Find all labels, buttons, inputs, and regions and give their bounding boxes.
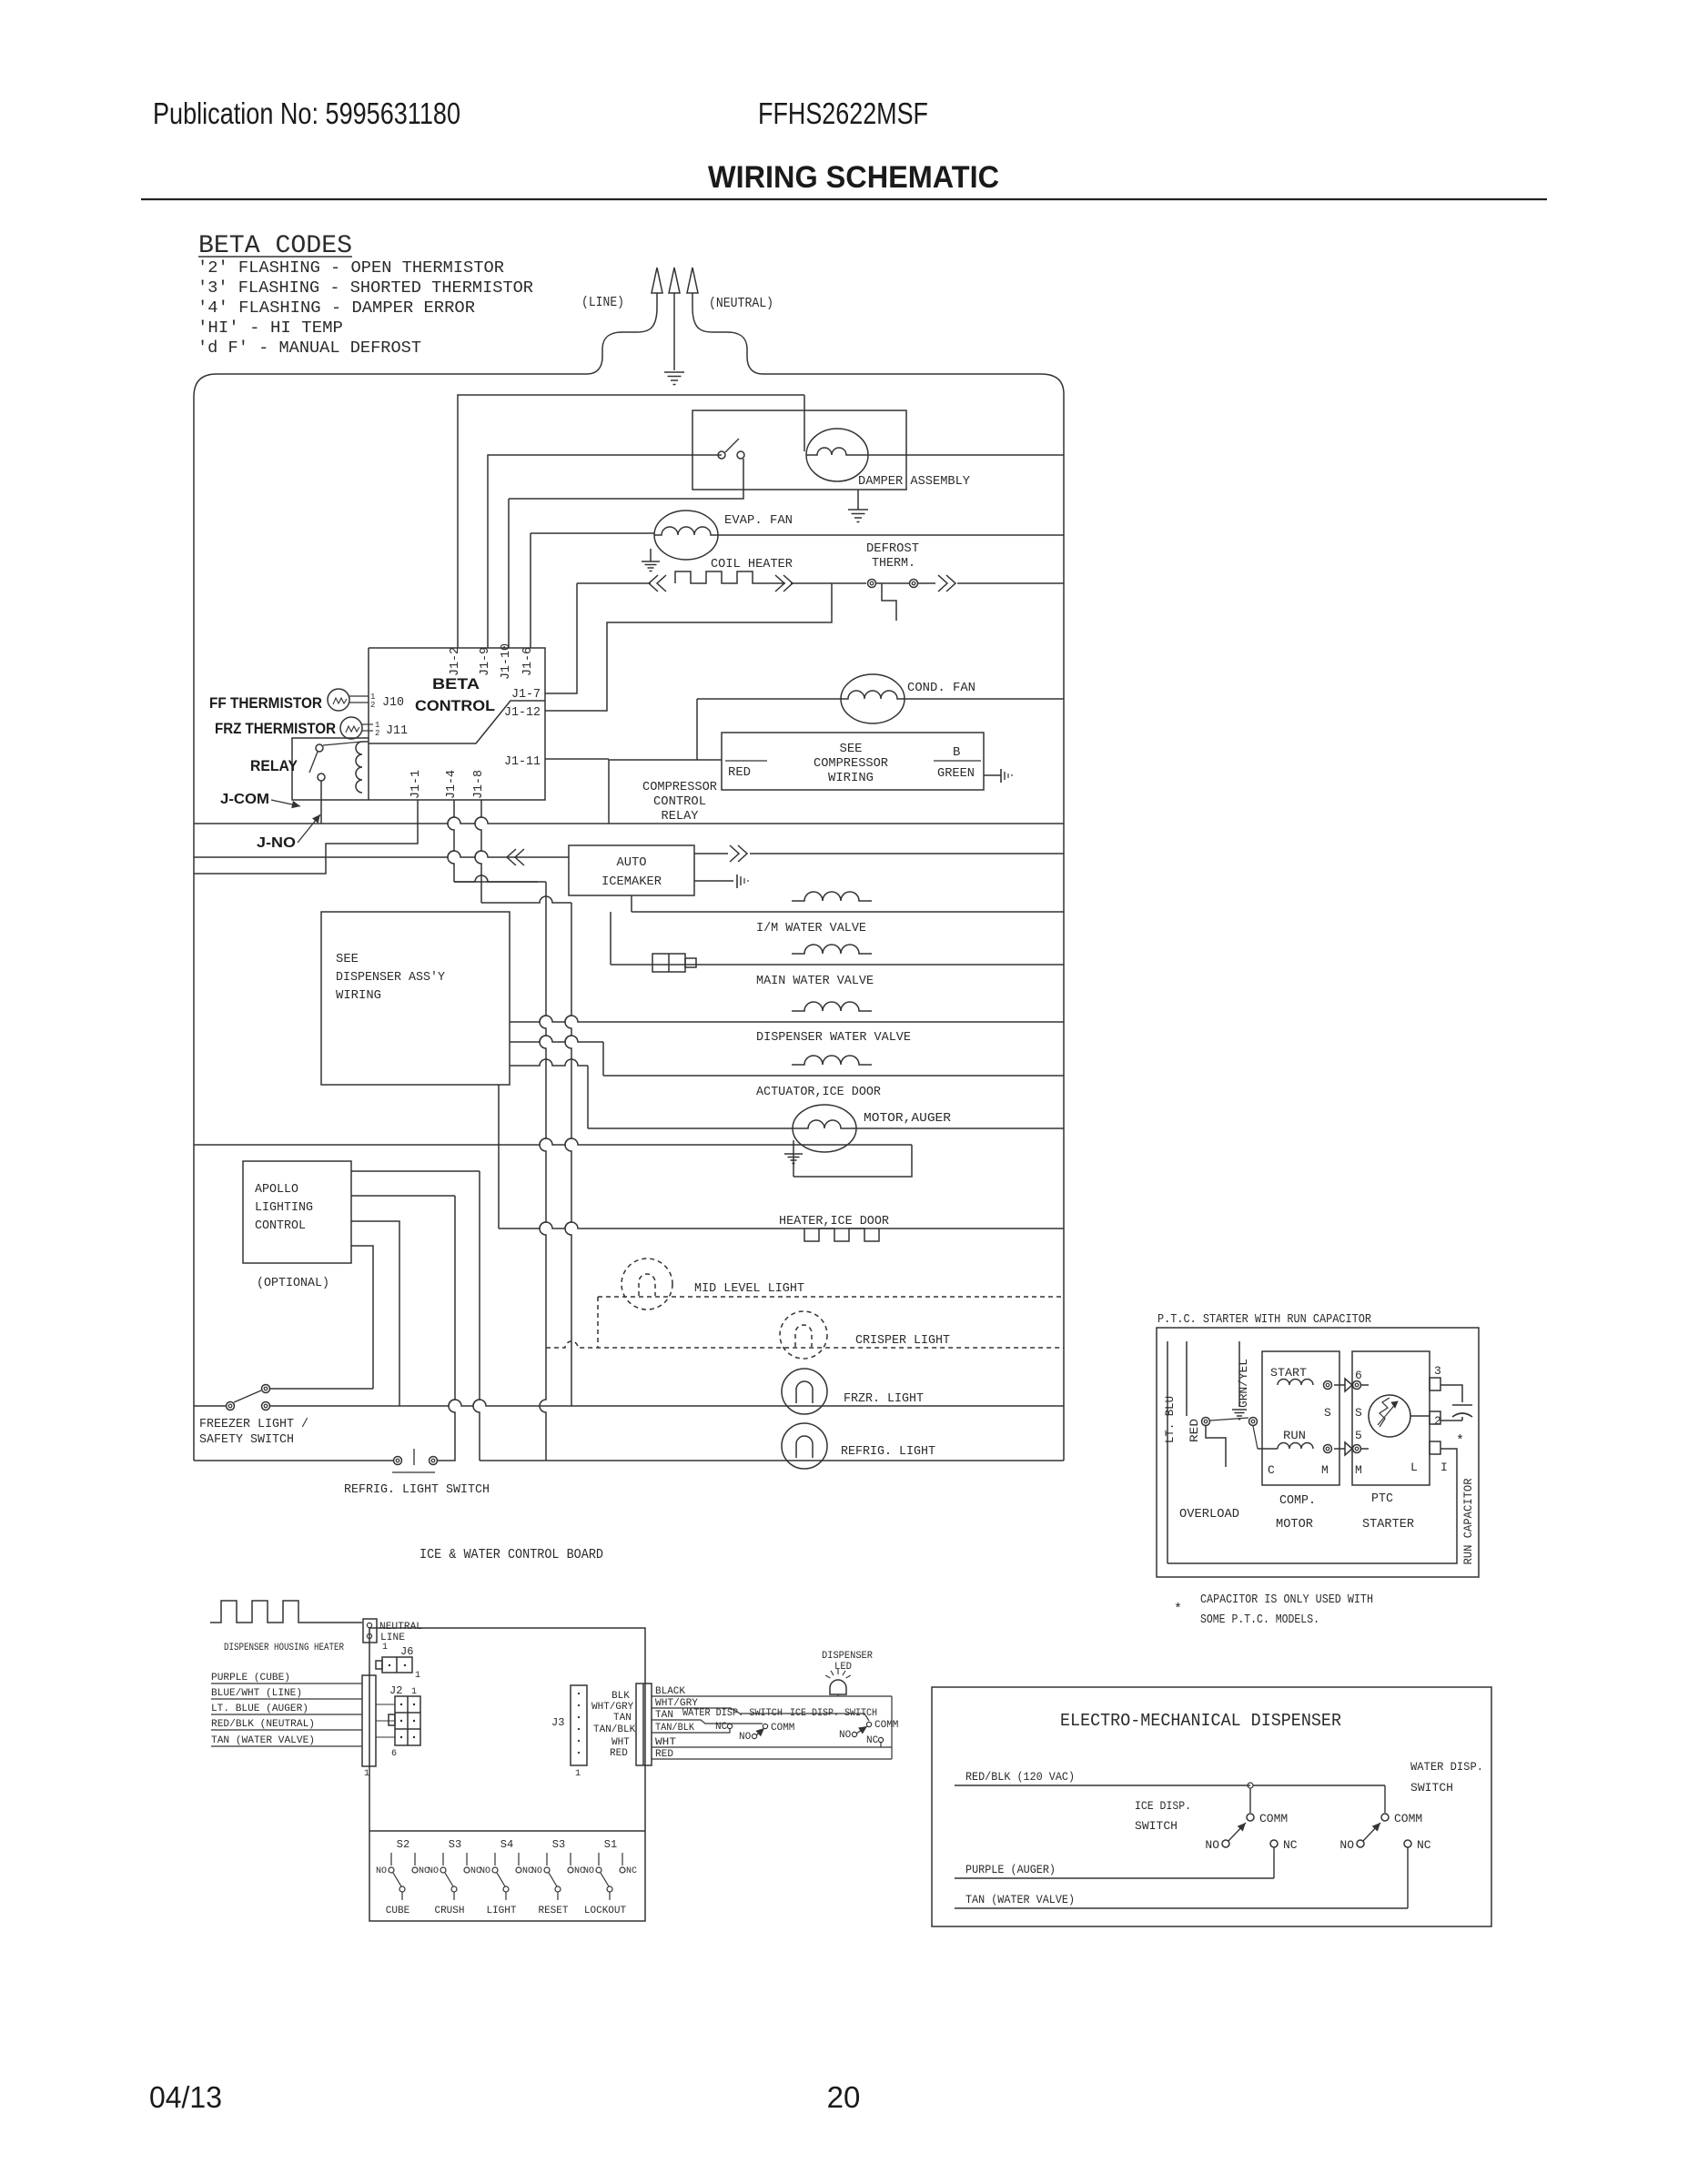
svg-text:I/M WATER VALVE: I/M WATER VALVE: [756, 921, 866, 935]
svg-text:COIL HEATER: COIL HEATER: [711, 557, 793, 571]
svg-text:COMPRESSOR: COMPRESSOR: [642, 780, 718, 794]
svg-text:J-COM: J-COM: [220, 792, 269, 807]
svg-text:LT. BLUE (AUGER): LT. BLUE (AUGER): [211, 1704, 308, 1714]
svg-text:M: M: [1355, 1463, 1362, 1477]
svg-text:*: *: [1174, 1602, 1182, 1617]
svg-text:BETA: BETA: [432, 675, 480, 693]
svg-text:NO: NO: [428, 1866, 439, 1876]
svg-text:DISPENSER WATER VALVE: DISPENSER WATER VALVE: [756, 1030, 911, 1045]
svg-text:WATER DISP. SWITCH: WATER DISP. SWITCH: [682, 1708, 783, 1719]
svg-text:ICE DISP. SWITCH: ICE DISP. SWITCH: [790, 1708, 877, 1719]
svg-text:LOCKOUT: LOCKOUT: [584, 1906, 627, 1916]
svg-text:NC: NC: [715, 1722, 728, 1733]
svg-text:NO: NO: [1205, 1838, 1219, 1852]
svg-text:NC: NC: [866, 1735, 879, 1746]
svg-text:S3: S3: [449, 1838, 461, 1851]
svg-text:J10: J10: [382, 695, 404, 710]
svg-text:(LINE): (LINE): [581, 295, 624, 310]
svg-text:S1: S1: [604, 1838, 617, 1851]
svg-text:ICE & WATER CONTROL BOARD: ICE & WATER CONTROL BOARD: [419, 1547, 603, 1562]
svg-text:ACTUATOR,ICE DOOR: ACTUATOR,ICE DOOR: [756, 1085, 882, 1099]
svg-text:NO: NO: [531, 1866, 542, 1876]
svg-text:TAN: TAN: [613, 1713, 632, 1724]
svg-text:MID LEVEL LIGHT: MID LEVEL LIGHT: [694, 1281, 804, 1296]
svg-text:EVAP. FAN: EVAP. FAN: [724, 513, 793, 528]
svg-text:RED: RED: [655, 1749, 673, 1760]
svg-text:NO: NO: [480, 1866, 490, 1876]
svg-text:RED/BLK (120 VAC): RED/BLK (120 VAC): [965, 1770, 1075, 1784]
svg-text:START: START: [1270, 1366, 1307, 1380]
svg-text:*: *: [1456, 1433, 1464, 1449]
svg-text:FRZR. LIGHT: FRZR. LIGHT: [844, 1391, 924, 1406]
svg-text:TAN (WATER VALVE): TAN (WATER VALVE): [965, 1893, 1075, 1906]
svg-text:J1-6: J1-6: [521, 647, 535, 676]
svg-text:J1-9: J1-9: [478, 647, 492, 676]
svg-text:MAIN WATER VALVE: MAIN WATER VALVE: [756, 974, 874, 988]
svg-text:COMM: COMM: [771, 1723, 794, 1734]
svg-text:J1-7: J1-7: [511, 687, 541, 702]
svg-text:COMM: COMM: [874, 1720, 898, 1731]
svg-text:S2: S2: [397, 1838, 409, 1851]
svg-text:NC: NC: [626, 1866, 637, 1876]
svg-text:2: 2: [375, 729, 379, 738]
svg-text:'d F' - MANUAL DEFROST: 'd F' - MANUAL DEFROST: [197, 339, 421, 358]
svg-text:J6: J6: [400, 1645, 413, 1658]
svg-text:J11: J11: [386, 723, 408, 738]
svg-text:BLK: BLK: [612, 1691, 630, 1702]
svg-text:2: 2: [370, 701, 375, 710]
svg-text:'2' FLASHING - OPEN THERMISTOR: '2' FLASHING - OPEN THERMISTOR: [197, 259, 504, 278]
svg-text:RUN: RUN: [1283, 1429, 1306, 1442]
svg-text:M: M: [1321, 1463, 1329, 1477]
svg-text:ELECTRO-MECHANICAL DISPENSER: ELECTRO-MECHANICAL DISPENSER: [1060, 1711, 1341, 1731]
svg-text:CAPACITOR IS ONLY USED WITH: CAPACITOR IS ONLY USED WITH: [1200, 1592, 1373, 1607]
svg-text:CUBE: CUBE: [386, 1906, 410, 1916]
svg-text:(OPTIONAL): (OPTIONAL): [257, 1276, 329, 1290]
svg-text:SOME P.T.C. MODELS.: SOME P.T.C. MODELS.: [1200, 1613, 1319, 1627]
svg-text:1: 1: [575, 1769, 581, 1779]
svg-text:APOLLO: APOLLO: [255, 1182, 298, 1197]
svg-text:MOTOR,AUGER: MOTOR,AUGER: [864, 1111, 952, 1126]
svg-text:DISPENSER: DISPENSER: [822, 1651, 873, 1662]
svg-text:FF THERMISTOR: FF THERMISTOR: [209, 694, 322, 712]
svg-text:TAN (WATER VALVE): TAN (WATER VALVE): [211, 1735, 315, 1746]
svg-text:SWITCH: SWITCH: [1410, 1781, 1453, 1795]
svg-text:COND. FAN: COND. FAN: [907, 681, 975, 695]
svg-text:PURPLE (CUBE): PURPLE (CUBE): [211, 1673, 290, 1683]
svg-text:COMM: COMM: [1394, 1812, 1422, 1825]
svg-text:04/13: 04/13: [149, 2080, 222, 2114]
svg-text:FRZ THERMISTOR: FRZ THERMISTOR: [215, 720, 336, 737]
svg-text:SEE: SEE: [840, 742, 863, 756]
svg-text:NO: NO: [376, 1866, 387, 1876]
svg-text:WATER DISP.: WATER DISP.: [1410, 1760, 1483, 1774]
svg-text:'4' FLASHING - DAMPER ERROR: '4' FLASHING - DAMPER ERROR: [197, 299, 475, 318]
svg-text:NO: NO: [1339, 1838, 1354, 1852]
svg-text:6: 6: [391, 1749, 397, 1759]
svg-text:S4: S4: [500, 1838, 513, 1851]
svg-text:WHT/GRY: WHT/GRY: [591, 1702, 634, 1713]
svg-text:NEUTRAL: NEUTRAL: [379, 1622, 422, 1633]
svg-text:CRISPER LIGHT: CRISPER LIGHT: [855, 1333, 950, 1348]
svg-text:GREEN: GREEN: [937, 766, 975, 781]
svg-text:RED: RED: [610, 1748, 628, 1759]
svg-text:RESET: RESET: [538, 1906, 568, 1916]
svg-text:P.T.C. STARTER WITH RUN CAPACI: P.T.C. STARTER WITH RUN CAPACITOR: [1157, 1312, 1372, 1327]
svg-text:PTC: PTC: [1371, 1491, 1393, 1506]
svg-text:J3: J3: [551, 1716, 564, 1729]
svg-text:WHT: WHT: [612, 1737, 630, 1748]
svg-text:CONTROL: CONTROL: [255, 1218, 306, 1233]
svg-text:Publication No: 5995631180: Publication No: 5995631180: [153, 96, 460, 130]
svg-text:SEE: SEE: [336, 952, 359, 966]
svg-text:OVERLOAD: OVERLOAD: [1179, 1507, 1239, 1522]
svg-text:BLUE/WHT (LINE): BLUE/WHT (LINE): [211, 1688, 302, 1699]
svg-text:TAN: TAN: [655, 1710, 673, 1721]
svg-text:DAMPER ASSEMBLY: DAMPER ASSEMBLY: [858, 474, 971, 489]
svg-text:NO: NO: [583, 1866, 594, 1876]
svg-text:LED: LED: [834, 1662, 852, 1673]
svg-text:REFRIG. LIGHT SWITCH: REFRIG. LIGHT SWITCH: [344, 1482, 490, 1497]
svg-text:J2: J2: [389, 1684, 402, 1697]
svg-text:RELAY: RELAY: [250, 757, 298, 774]
svg-text:LT. BLU: LT. BLU: [1163, 1396, 1177, 1443]
svg-text:DEFROST: DEFROST: [866, 541, 919, 556]
svg-text:1: 1: [415, 1671, 420, 1681]
svg-text:SWITCH: SWITCH: [1135, 1819, 1178, 1833]
svg-text:WIRING: WIRING: [828, 771, 874, 785]
svg-text:PURPLE (AUGER): PURPLE (AUGER): [965, 1863, 1056, 1876]
svg-text:NO: NO: [839, 1730, 852, 1741]
svg-text:SAFETY SWITCH: SAFETY SWITCH: [199, 1432, 294, 1447]
svg-text:COMPRESSOR: COMPRESSOR: [814, 756, 889, 771]
svg-text:THERM.: THERM.: [872, 556, 915, 571]
svg-text:1: 1: [382, 1643, 388, 1653]
svg-text:J1-1: J1-1: [409, 770, 423, 799]
svg-text:LIGHTING: LIGHTING: [255, 1200, 313, 1215]
svg-text:NO: NO: [739, 1732, 752, 1743]
svg-text:1: 1: [364, 1769, 369, 1779]
svg-text:J-NO: J-NO: [257, 835, 296, 851]
svg-text:COMM: COMM: [1259, 1812, 1288, 1825]
svg-text:J1-11: J1-11: [504, 754, 541, 769]
svg-text:B: B: [953, 745, 960, 760]
svg-text:CONTROL: CONTROL: [653, 794, 706, 809]
svg-text:RED/BLK (NEUTRAL): RED/BLK (NEUTRAL): [211, 1719, 315, 1730]
svg-text:I: I: [1440, 1461, 1448, 1474]
svg-text:(NEUTRAL): (NEUTRAL): [709, 296, 773, 311]
svg-text:'3' FLASHING - SHORTED THERMIS: '3' FLASHING - SHORTED THERMISTOR: [197, 279, 533, 298]
svg-text:WHT: WHT: [655, 1737, 676, 1748]
svg-text:J1-4: J1-4: [444, 770, 459, 799]
svg-text:S: S: [1324, 1406, 1331, 1420]
svg-text:L: L: [1410, 1461, 1418, 1474]
svg-text:20: 20: [827, 2080, 861, 2114]
svg-text:REFRIG. LIGHT: REFRIG. LIGHT: [841, 1444, 935, 1459]
svg-text:NC: NC: [1417, 1838, 1431, 1852]
svg-text:GRN/YEL: GRN/YEL: [1237, 1359, 1250, 1408]
svg-text:STARTER: STARTER: [1362, 1517, 1415, 1532]
svg-text:ICE DISP.: ICE DISP.: [1135, 1799, 1191, 1813]
svg-text:DISPENSER HOUSING HEATER: DISPENSER HOUSING HEATER: [224, 1643, 344, 1653]
svg-text:5: 5: [1355, 1429, 1362, 1442]
svg-text:AUTO: AUTO: [617, 855, 647, 870]
svg-text:COMP.: COMP.: [1279, 1493, 1316, 1508]
svg-text:MOTOR: MOTOR: [1276, 1517, 1314, 1532]
svg-text:TAN/BLK: TAN/BLK: [655, 1723, 694, 1734]
svg-text:NC: NC: [1283, 1838, 1298, 1852]
svg-text:3: 3: [1434, 1364, 1441, 1378]
svg-text:C: C: [1268, 1463, 1275, 1477]
svg-text:'HI' - HI TEMP: 'HI' - HI TEMP: [197, 319, 343, 338]
svg-text:FREEZER LIGHT /: FREEZER LIGHT /: [199, 1417, 308, 1431]
svg-text:J1-12: J1-12: [504, 705, 541, 720]
svg-text:LIGHT: LIGHT: [486, 1906, 516, 1916]
svg-text:RELAY: RELAY: [662, 809, 700, 824]
svg-text:RUN CAPACITOR: RUN CAPACITOR: [1461, 1478, 1475, 1564]
svg-text:J1-8: J1-8: [471, 770, 486, 799]
svg-text:TAN/BLK: TAN/BLK: [593, 1724, 636, 1735]
svg-text:FFHS2622MSF: FFHS2622MSF: [758, 96, 928, 130]
svg-text:WIRING: WIRING: [336, 988, 381, 1003]
svg-text:S: S: [1355, 1406, 1362, 1420]
svg-text:ICEMAKER: ICEMAKER: [601, 875, 662, 889]
svg-text:WIRING SCHEMATIC: WIRING SCHEMATIC: [708, 160, 999, 195]
svg-text:CONTROL: CONTROL: [415, 697, 495, 714]
svg-text:DISPENSER ASS'Y: DISPENSER ASS'Y: [336, 970, 446, 985]
svg-text:RED: RED: [728, 765, 751, 780]
svg-text:J1-10: J1-10: [499, 643, 513, 680]
svg-text:HEATER,ICE DOOR: HEATER,ICE DOOR: [779, 1214, 890, 1228]
svg-text:6: 6: [1355, 1369, 1362, 1382]
svg-text:S3: S3: [552, 1838, 565, 1851]
svg-text:J1-2: J1-2: [448, 647, 462, 676]
svg-text:BLACK: BLACK: [655, 1686, 685, 1697]
svg-text:RED: RED: [1188, 1419, 1201, 1442]
svg-text:CRUSH: CRUSH: [434, 1906, 464, 1916]
